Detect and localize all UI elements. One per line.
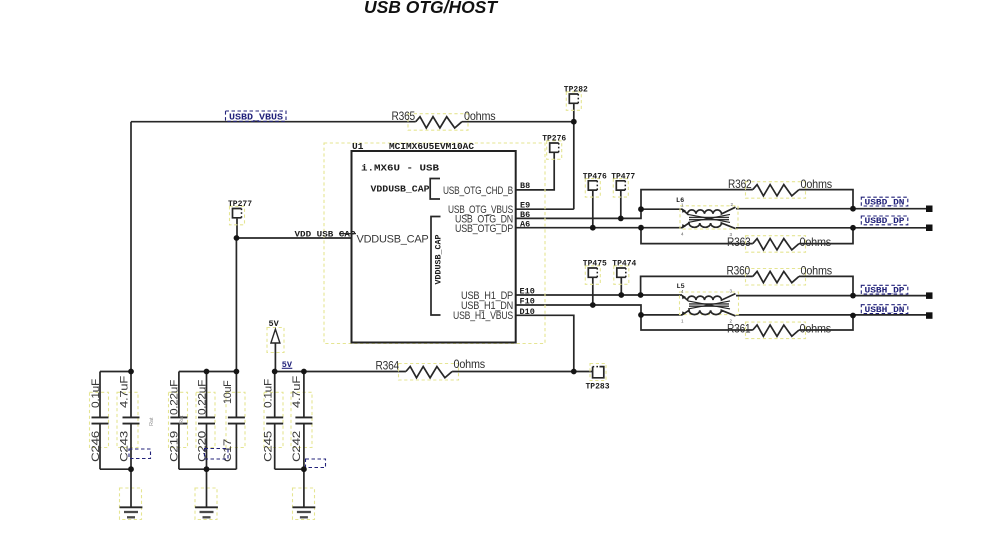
IC U1 MCIMX6U5EVM10AC bbox=[324, 141, 545, 344]
wire A6 row bbox=[516, 227, 641, 229]
junction R360 / USBH_DP bbox=[850, 293, 856, 299]
wire USBD_VBUS row right of R365 bbox=[462, 121, 574, 123]
svg-text:USB_H1_VBUS: USB_H1_VBUS bbox=[453, 310, 513, 322]
pin 3 strike mark on VDDUSB_CAP pin bbox=[339, 233, 356, 235]
wire L6 pin2 to terminal USBD_DN bbox=[736, 208, 926, 210]
svg-text:Rat: Rat bbox=[179, 415, 185, 424]
wire TP474 stem bbox=[620, 277, 622, 295]
svg-text:C220: C220 bbox=[196, 431, 208, 462]
wire into L6 pin4 bbox=[641, 227, 682, 229]
junction C220 bottom / ground bbox=[204, 466, 210, 472]
wire R361 right to merge bbox=[799, 316, 853, 331]
resistor R360 0ohms bbox=[727, 264, 833, 286]
svg-text:TP282: TP282 bbox=[564, 86, 588, 95]
junction R361 / L5 pin1 bbox=[638, 312, 644, 318]
resistor R363 0ohms bbox=[727, 235, 831, 252]
wire R364 row left segment (5V rail) bbox=[275, 371, 406, 373]
bracket lower bbox=[431, 217, 441, 316]
junction C242 bottom / ground bbox=[301, 466, 307, 472]
test point TP476 bbox=[583, 172, 607, 197]
net label USBD_VBUS bbox=[226, 111, 287, 123]
svg-text:0.1uF: 0.1uF bbox=[90, 378, 102, 408]
test point TP474 bbox=[612, 260, 636, 285]
test point TP475 bbox=[583, 260, 607, 285]
svg-text:TP276: TP276 bbox=[542, 135, 566, 144]
bracket upper bbox=[430, 179, 440, 200]
svg-text:E10: E10 bbox=[520, 287, 535, 297]
node USBH_DN bbox=[861, 305, 908, 315]
wire B6 up to R362 limb bbox=[641, 190, 753, 210]
capacitor C246 0.1uF bbox=[90, 372, 109, 470]
wire C246/C243 top rail bbox=[100, 371, 131, 373]
svg-text:USB OTG/HOST: USB OTG/HOST bbox=[364, 0, 498, 17]
capacitor C219 0.22uF bbox=[169, 372, 188, 470]
junction C245 top / 5V bbox=[272, 369, 278, 375]
svg-text:USBH_DN: USBH_DN bbox=[865, 306, 905, 315]
resistor R364 0ohms bbox=[376, 357, 486, 380]
svg-text:C219: C219 bbox=[169, 431, 181, 462]
wire E10 up to R360 limb bbox=[641, 276, 753, 295]
junction R362 / USBD_DN bbox=[850, 206, 856, 212]
junction TP477 / USB_OTG_DN bbox=[618, 216, 624, 222]
net label 5V blue bbox=[282, 360, 293, 370]
svg-text:0.22uF: 0.22uF bbox=[196, 379, 208, 415]
junction TP475 / USB_H1_DN bbox=[590, 302, 596, 308]
wire into L5 pin1 bbox=[641, 314, 682, 316]
wire TP476 stem bbox=[592, 190, 594, 228]
terminal USBD_DN bbox=[926, 206, 933, 213]
wire A6 to R363 limb bbox=[641, 228, 753, 244]
svg-text:TP477: TP477 bbox=[611, 172, 635, 181]
junction C220 top bbox=[204, 369, 210, 375]
svg-text:MCIMX6U5EVM10AC: MCIMX6U5EVM10AC bbox=[389, 141, 474, 152]
junction R363 / USBD_DP bbox=[850, 225, 856, 231]
svg-text:5V: 5V bbox=[269, 319, 280, 329]
wire L5 pin3 to terminal USBH_DP bbox=[736, 295, 926, 297]
capacitor C220 0.22uF bbox=[196, 372, 215, 470]
svg-text:VDDUSB_CAP: VDDUSB_CAP bbox=[357, 234, 429, 246]
junction TP282 / USBD_VBUS / R365 bbox=[571, 119, 577, 125]
svg-text:TP474: TP474 bbox=[612, 260, 636, 269]
wire B6 row bbox=[516, 209, 641, 218]
wire TP475 stem bbox=[592, 277, 594, 305]
node USBD_DP bbox=[861, 216, 908, 226]
ground under C220 bbox=[195, 469, 218, 519]
terminal USBH_DN bbox=[926, 312, 933, 319]
test point TP283 bbox=[586, 364, 610, 392]
svg-text:USBD_DP: USBD_DP bbox=[865, 217, 905, 226]
svg-text:0.22uF: 0.22uF bbox=[169, 379, 181, 415]
junction C242 top bbox=[301, 369, 307, 375]
svg-text:0ohms: 0ohms bbox=[801, 177, 833, 191]
junction C243 bottom / ground bbox=[128, 466, 134, 472]
wire into L5 pin4 bbox=[641, 294, 682, 296]
wire TP477 stem bbox=[620, 190, 622, 218]
svg-text:R363: R363 bbox=[727, 235, 751, 249]
wire F10 row bbox=[516, 305, 641, 315]
svg-text:TP283: TP283 bbox=[586, 383, 610, 392]
svg-text:R362: R362 bbox=[728, 177, 752, 191]
svg-text:VDDUSB_CAP: VDDUSB_CAP bbox=[371, 184, 430, 195]
svg-text:4.7uF: 4.7uF bbox=[118, 375, 130, 408]
wire L5 pin2 to terminal USBH_DN bbox=[736, 314, 926, 316]
capacitor C245 0.1uF bbox=[263, 372, 284, 470]
svg-text:Rat: Rat bbox=[149, 417, 155, 426]
svg-text:USBH_DP: USBH_DP bbox=[865, 286, 905, 295]
wire E9 pin stub bbox=[516, 208, 574, 210]
wire left vertical down to C246/C243 rail bbox=[130, 122, 132, 372]
power symbol 5V bbox=[267, 319, 284, 372]
wire L6 pin3 to terminal USBD_DP bbox=[736, 227, 926, 229]
junction TP474 / USB_H1_DP bbox=[618, 292, 624, 298]
wire VDD vertical down to C219 group rail bbox=[235, 238, 237, 372]
svg-text:4.7uF: 4.7uF bbox=[291, 375, 303, 408]
resistor R361 0ohms bbox=[727, 322, 831, 339]
wire R363 right to merge bbox=[799, 228, 853, 244]
svg-text:R365: R365 bbox=[392, 109, 416, 123]
wire R362 right to merge bbox=[799, 190, 853, 209]
terminal USBD_DP bbox=[926, 225, 933, 232]
junction TP277 / VDD_USB_CAP bbox=[234, 235, 240, 241]
junction R362 / L6 pin1 bbox=[638, 206, 644, 212]
svg-text:VDD USB CAP: VDD USB CAP bbox=[295, 230, 356, 240]
resistor R365 0ohms bbox=[392, 109, 496, 130]
node USBD_DN bbox=[861, 197, 908, 207]
wire C219/C220/C17 top rail bbox=[179, 371, 237, 373]
junction D10 / R364 / TP283 bbox=[571, 369, 577, 375]
svg-text:R364: R364 bbox=[376, 359, 400, 373]
svg-text:C242: C242 bbox=[291, 431, 303, 462]
wire VDD_USB_CAP row bbox=[237, 237, 352, 239]
wire B8 pin to TP276 bbox=[516, 152, 555, 190]
blue dashed DNP box C243 bbox=[129, 449, 151, 459]
inductor L5 common-mode choke bbox=[677, 283, 739, 324]
svg-text:USB_OTG_DP: USB_OTG_DP bbox=[455, 223, 513, 235]
test point TP277 bbox=[228, 200, 252, 225]
capacitor C17 10uF bbox=[222, 372, 245, 470]
capacitor C242 4.7uF bbox=[291, 372, 312, 470]
svg-text:E9: E9 bbox=[520, 201, 530, 211]
test point TP477 bbox=[611, 172, 635, 197]
blue dashed DNP box C242 bbox=[306, 459, 326, 468]
wire C219/C220/C17 bottom rail bbox=[179, 468, 237, 470]
svg-text:TP277: TP277 bbox=[228, 200, 252, 209]
wire D10 row down to R364 row bbox=[516, 315, 574, 371]
svg-text:0ohms: 0ohms bbox=[801, 264, 833, 278]
svg-text:A6: A6 bbox=[520, 219, 530, 229]
svg-text:R360: R360 bbox=[727, 264, 751, 278]
wire R360 right to merge bbox=[799, 276, 853, 295]
svg-text:C243: C243 bbox=[118, 431, 130, 462]
ground under C243 bbox=[120, 469, 143, 519]
junction R360 / L5 pin4 bbox=[638, 292, 644, 298]
wire TP277 stem bbox=[236, 219, 238, 238]
wire E10 row bbox=[516, 294, 641, 296]
wire F10 down to R361 limb bbox=[641, 315, 753, 330]
svg-text:VDDUSB_CAP: VDDUSB_CAP bbox=[434, 235, 444, 285]
svg-text:0.1uF: 0.1uF bbox=[263, 378, 275, 408]
ground under C242 bbox=[293, 469, 316, 519]
blue dashed DNP box C220 bbox=[205, 449, 229, 460]
wire C246/C243 bottom rail bbox=[100, 468, 131, 470]
svg-text:10uF: 10uF bbox=[222, 380, 234, 404]
svg-text:F10: F10 bbox=[520, 297, 535, 307]
svg-text:0ohms: 0ohms bbox=[800, 235, 832, 249]
svg-text:i.MX6U - USB: i.MX6U - USB bbox=[361, 163, 439, 174]
svg-text:C245: C245 bbox=[263, 431, 275, 462]
svg-text:B8: B8 bbox=[520, 181, 530, 191]
test point TP276 bbox=[542, 135, 566, 160]
wire into L6 pin1 bbox=[641, 208, 682, 210]
svg-text:USBD_DN: USBD_DN bbox=[865, 198, 905, 207]
svg-text:TP475: TP475 bbox=[583, 260, 607, 269]
wire C245/C242 bottom rail bbox=[275, 468, 304, 470]
svg-text:USBD_VBUS: USBD_VBUS bbox=[229, 113, 284, 123]
junction C17 top bbox=[234, 369, 240, 375]
wire USBD_VBUS row left of R365 bbox=[131, 121, 416, 123]
wire R364 right to TP283 bbox=[452, 371, 592, 373]
junction TP476 / USB_OTG_DP bbox=[590, 225, 596, 231]
node USBH_DP bbox=[861, 285, 908, 295]
svg-text:0ohms: 0ohms bbox=[800, 322, 832, 336]
test point TP282 bbox=[564, 86, 588, 111]
svg-text:D10: D10 bbox=[520, 307, 535, 317]
junction R363 / L6 pin4 bbox=[638, 225, 644, 231]
svg-text:USB_OTG_CHD_B: USB_OTG_CHD_B bbox=[443, 185, 513, 197]
junction R361 / USBH_DN bbox=[850, 313, 856, 319]
svg-text:C246: C246 bbox=[90, 431, 102, 462]
svg-text:U1: U1 bbox=[352, 141, 364, 152]
inductor L6 common-mode choke bbox=[676, 197, 738, 237]
terminal USBH_DP bbox=[926, 292, 933, 299]
capacitor C243 4.7uF bbox=[117, 372, 140, 470]
junction C243 top bbox=[128, 369, 134, 375]
resistor R362 0ohms bbox=[728, 177, 832, 198]
wire TP282 stem down to USB_OTG_VBUS row bbox=[573, 103, 575, 209]
svg-text:0ohms: 0ohms bbox=[454, 357, 486, 371]
svg-text:TP476: TP476 bbox=[583, 172, 607, 181]
svg-text:0ohms: 0ohms bbox=[464, 109, 496, 123]
